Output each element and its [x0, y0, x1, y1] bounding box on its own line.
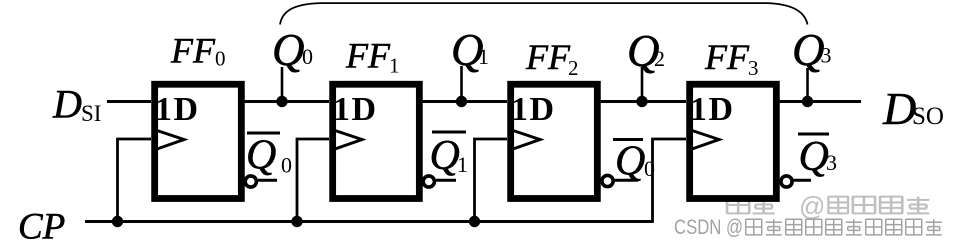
feedback arc over Q0..Q3 [280, 3, 808, 24]
flip-flop FF2 box [511, 84, 598, 198]
FF0 clock chevron [156, 130, 185, 150]
node CP-FF1 junction [291, 216, 302, 227]
svg-text:SI: SI [81, 101, 101, 126]
FF2 inverted output bubble [602, 175, 613, 186]
svg-text:FF: FF [704, 37, 750, 77]
svg-text:3: 3 [748, 56, 759, 80]
FF3 inverted output bubble [781, 176, 792, 187]
wire FF3.Q to D_SO [779, 100, 861, 103]
svg-text:Q: Q [799, 134, 829, 180]
CP bus [85, 220, 653, 223]
svg-text:0: 0 [302, 44, 313, 69]
svg-text:Q: Q [615, 139, 645, 185]
FF1 Qbar stub [436, 179, 456, 182]
FF2 Qbar stub [615, 179, 639, 182]
svg-text:3: 3 [826, 150, 837, 175]
wire Q2 tap [641, 67, 644, 102]
FF3 Qbar stub [794, 179, 812, 182]
svg-text:D: D [52, 82, 82, 127]
svg-text:@: @ [799, 191, 825, 221]
FF0 Qbar stub [258, 179, 277, 182]
wire D_SI to FF0 [107, 100, 151, 103]
node CP-FF2 junction [469, 216, 480, 227]
wire Q1 tap [460, 66, 463, 102]
label Q2bar (printed Q0) [613, 138, 643, 141]
wire CP to FF3 clock [653, 139, 687, 223]
FF1 clock chevron [334, 130, 363, 150]
label Q3bar [798, 133, 829, 136]
svg-text:0: 0 [215, 47, 226, 71]
FF0 inverted output bubble [245, 176, 256, 187]
label Q0bar [247, 132, 280, 135]
FF3 clock chevron [691, 130, 720, 150]
svg-text:1D: 1D [155, 91, 198, 128]
svg-text:Q: Q [430, 133, 460, 179]
svg-text:Q: Q [246, 133, 276, 179]
svg-text:0: 0 [644, 156, 655, 181]
svg-text:FF: FF [170, 31, 216, 71]
wire FF0.Q to FF1.D [244, 100, 329, 103]
svg-text:Q: Q [272, 25, 305, 75]
svg-text:SO: SO [912, 103, 944, 130]
svg-text:1D: 1D [690, 91, 733, 128]
svg-text:CSDN @: CSDN @ [674, 216, 743, 239]
svg-text:1D: 1D [511, 91, 554, 128]
svg-text:0: 0 [281, 153, 292, 178]
flip-flop FF3 box [690, 84, 777, 198]
label Q1bar [432, 131, 466, 134]
node FF3-DSO junction [802, 96, 813, 107]
svg-text:1D: 1D [333, 91, 376, 128]
svg-text:1: 1 [478, 44, 489, 69]
FF2 clock chevron [512, 130, 541, 150]
wire CP to FF1 clock [297, 139, 329, 222]
svg-text:1: 1 [457, 152, 468, 177]
FF1 inverted output bubble [423, 176, 434, 187]
wire FF2.Q to FF3.D [600, 100, 686, 103]
svg-text:1: 1 [389, 54, 400, 78]
svg-text:2: 2 [654, 46, 665, 71]
flip-flop FF0 box [155, 84, 242, 198]
node FF2-FF3 junction [636, 96, 647, 107]
svg-text:CP: CP [18, 207, 65, 245]
wire Q3 tap [806, 68, 809, 102]
svg-text:2: 2 [568, 56, 579, 80]
flip-flop FF1 box [333, 84, 420, 198]
svg-text:FF: FF [345, 36, 391, 76]
svg-text:3: 3 [821, 43, 832, 68]
wire CP to FF0 clock [118, 139, 152, 222]
wire CP to FF2 clock [475, 139, 508, 222]
node CP-FF0 junction [112, 216, 123, 227]
wire FF1.Q to FF2.D [422, 100, 507, 103]
node FF1-FF2 junction [456, 96, 467, 107]
svg-text:FF: FF [525, 37, 571, 77]
wire Q0 tap [281, 67, 284, 102]
node FF0-FF1 junction [276, 96, 287, 107]
